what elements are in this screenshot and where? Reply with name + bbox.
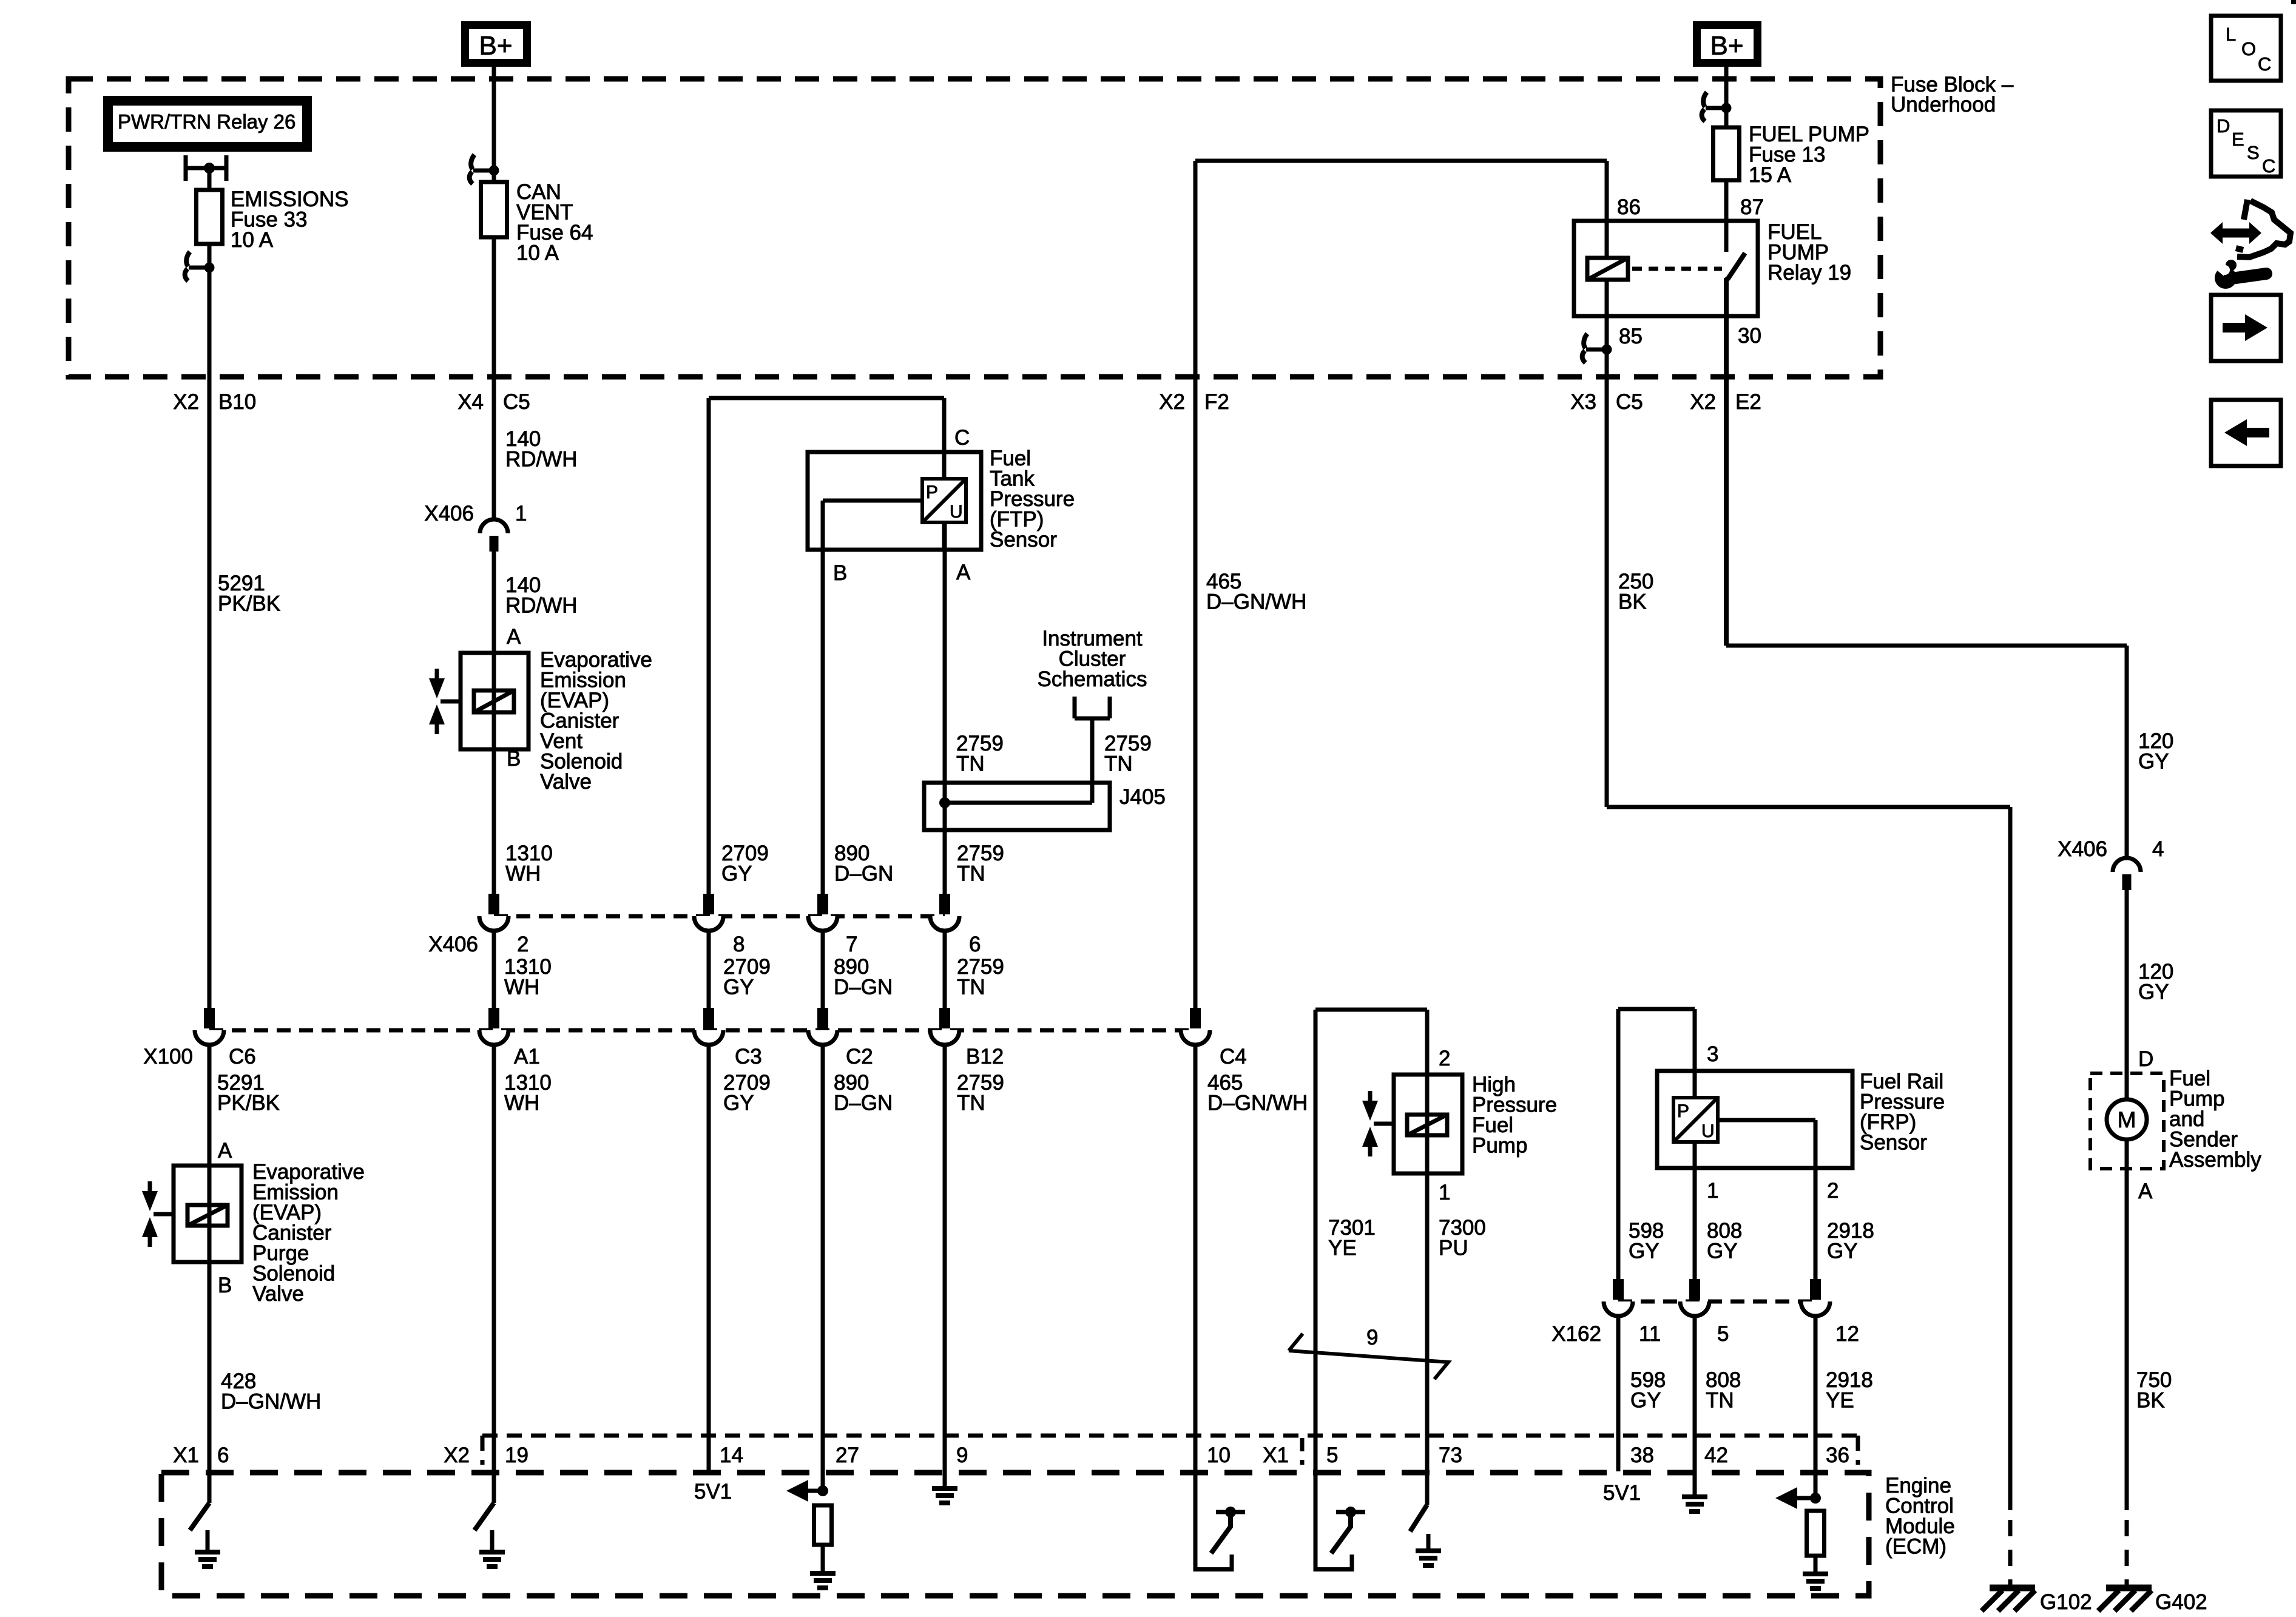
svg-text:X2: X2: [1159, 390, 1185, 414]
svg-text:B12: B12: [966, 1045, 1004, 1068]
svg-text:B+: B+: [479, 31, 512, 61]
svg-text:8: 8: [733, 933, 745, 956]
svg-text:F2: F2: [1204, 390, 1229, 414]
svg-text:6: 6: [969, 933, 981, 956]
svg-text:85: 85: [1619, 325, 1643, 348]
svg-text:X406: X406: [2058, 837, 2107, 861]
svg-text:TN: TN: [1104, 752, 1133, 776]
svg-text:GY: GY: [721, 862, 752, 886]
svg-text:Valve: Valve: [540, 770, 592, 794]
svg-text:GY: GY: [1630, 1389, 1661, 1413]
svg-text:S: S: [2247, 142, 2260, 163]
svg-text:X2: X2: [173, 390, 199, 414]
svg-text:1: 1: [1439, 1181, 1450, 1204]
svg-text:D–GN/WH: D–GN/WH: [1207, 1092, 1308, 1115]
svg-text:A: A: [956, 561, 971, 584]
svg-text:X4: X4: [458, 390, 484, 414]
svg-text:WH: WH: [505, 862, 541, 886]
svg-text:GY: GY: [723, 1092, 754, 1115]
svg-text:X100: X100: [143, 1045, 193, 1068]
svg-text:B: B: [218, 1274, 232, 1297]
svg-text:E: E: [2232, 129, 2244, 150]
svg-text:C5: C5: [503, 390, 530, 414]
svg-text:TN: TN: [1706, 1389, 1734, 1413]
svg-text:D–GN: D–GN: [834, 976, 893, 999]
svg-text:6: 6: [217, 1443, 229, 1467]
svg-text:42: 42: [1704, 1443, 1728, 1467]
svg-text:X406: X406: [428, 933, 478, 956]
svg-text:GY: GY: [2138, 750, 2169, 774]
svg-text:10 A: 10 A: [231, 228, 274, 252]
svg-text:2: 2: [1439, 1047, 1450, 1070]
svg-text:36: 36: [1826, 1443, 1849, 1467]
svg-text:B: B: [833, 561, 847, 585]
svg-text:9: 9: [1366, 1326, 1378, 1349]
svg-text:TN: TN: [956, 752, 985, 776]
svg-text:B: B: [507, 747, 521, 771]
svg-text:P: P: [1677, 1101, 1689, 1121]
svg-text:GY: GY: [1629, 1240, 1660, 1263]
svg-text:X1: X1: [173, 1443, 199, 1467]
svg-text:Sensor: Sensor: [1860, 1131, 1927, 1155]
svg-text:C5: C5: [1616, 390, 1643, 414]
svg-text:X406: X406: [424, 502, 474, 525]
svg-text:GY: GY: [723, 976, 754, 999]
svg-text:BK: BK: [2136, 1389, 2165, 1413]
svg-text:X2: X2: [444, 1443, 470, 1467]
svg-text:3: 3: [1707, 1042, 1718, 1066]
svg-text:Underhood: Underhood: [1891, 93, 1996, 116]
svg-text:G402: G402: [2155, 1590, 2207, 1614]
svg-text:2: 2: [517, 933, 528, 956]
svg-text:RD/WH: RD/WH: [505, 448, 578, 471]
svg-text:2: 2: [1827, 1179, 1838, 1203]
svg-text:A: A: [218, 1139, 232, 1163]
svg-text:(ECM): (ECM): [1885, 1535, 1947, 1559]
svg-text:PK/BK: PK/BK: [217, 1092, 280, 1115]
svg-text:73: 73: [1439, 1443, 1462, 1467]
svg-text:PK/BK: PK/BK: [218, 592, 280, 616]
svg-text:5: 5: [1717, 1322, 1729, 1346]
svg-text:C2: C2: [846, 1045, 873, 1068]
svg-text:O: O: [2241, 38, 2256, 59]
svg-text:GY: GY: [2138, 981, 2169, 1004]
svg-text:Pump: Pump: [1472, 1134, 1527, 1158]
svg-text:X2: X2: [1690, 390, 1716, 414]
svg-text:TN: TN: [957, 1092, 985, 1115]
svg-text:5: 5: [1326, 1443, 1338, 1467]
svg-text:86: 86: [1617, 195, 1641, 219]
svg-text:C: C: [2262, 155, 2275, 177]
svg-text:RD/WH: RD/WH: [505, 594, 578, 618]
svg-text:M: M: [2118, 1107, 2136, 1132]
svg-text:C4: C4: [1220, 1045, 1247, 1068]
svg-text:1: 1: [1707, 1179, 1718, 1203]
svg-text:B+: B+: [1710, 31, 1743, 61]
svg-text:P: P: [926, 482, 938, 502]
svg-text:YE: YE: [1328, 1237, 1357, 1260]
svg-text:YE: YE: [1826, 1389, 1854, 1413]
svg-text:38: 38: [1630, 1443, 1654, 1467]
svg-text:BK: BK: [1618, 590, 1647, 614]
svg-text:11: 11: [1639, 1322, 1661, 1346]
svg-text:TN: TN: [957, 862, 985, 886]
svg-text:C: C: [2258, 53, 2271, 75]
svg-text:L: L: [2226, 24, 2236, 45]
svg-text:Relay 19: Relay 19: [1768, 261, 1851, 285]
svg-text:U: U: [950, 502, 963, 522]
svg-text:Sensor: Sensor: [990, 528, 1057, 552]
svg-text:D: D: [2217, 115, 2230, 137]
svg-text:4: 4: [2152, 837, 2164, 861]
svg-text:Schematics: Schematics: [1038, 667, 1147, 691]
svg-text:D: D: [2138, 1047, 2153, 1071]
svg-text:C6: C6: [229, 1045, 256, 1068]
svg-text:WH: WH: [504, 976, 539, 999]
svg-text:15 A: 15 A: [1749, 163, 1792, 187]
svg-text:19: 19: [505, 1443, 528, 1467]
svg-text:9: 9: [956, 1443, 968, 1467]
svg-text:B10: B10: [218, 390, 256, 414]
svg-text:TN: TN: [957, 976, 985, 999]
svg-text:U: U: [1701, 1121, 1715, 1141]
svg-text:C: C: [954, 426, 970, 450]
svg-text:87: 87: [1740, 195, 1764, 219]
svg-text:X3: X3: [1570, 390, 1596, 414]
svg-text:G102: G102: [2040, 1590, 2092, 1614]
svg-text:X1: X1: [1263, 1443, 1289, 1467]
svg-text:7: 7: [846, 933, 857, 956]
svg-text:D–GN/WH: D–GN/WH: [1206, 590, 1306, 614]
svg-text:WH: WH: [504, 1092, 539, 1115]
svg-text:5V1: 5V1: [694, 1480, 732, 1504]
svg-text:Assembly: Assembly: [2169, 1148, 2261, 1172]
svg-text:D–GN/WH: D–GN/WH: [221, 1390, 321, 1414]
svg-text:X162: X162: [1551, 1322, 1601, 1346]
svg-text:Valve: Valve: [252, 1282, 304, 1306]
svg-text:J405: J405: [1119, 785, 1166, 809]
svg-text:5V1: 5V1: [1603, 1481, 1641, 1505]
svg-text:27: 27: [836, 1443, 859, 1467]
svg-text:D–GN: D–GN: [834, 1092, 893, 1115]
svg-text:A1: A1: [514, 1045, 540, 1068]
svg-text:1: 1: [515, 502, 527, 525]
svg-text:C3: C3: [735, 1045, 762, 1068]
svg-text:PU: PU: [1439, 1237, 1468, 1260]
svg-text:10 A: 10 A: [516, 241, 559, 265]
svg-text:E2: E2: [1735, 390, 1761, 414]
svg-text:12: 12: [1835, 1322, 1859, 1346]
svg-text:A: A: [507, 625, 521, 649]
svg-text:14: 14: [720, 1443, 743, 1467]
svg-text:GY: GY: [1827, 1240, 1858, 1263]
svg-text:10: 10: [1207, 1443, 1231, 1467]
svg-text:30: 30: [1738, 324, 1761, 348]
svg-text:PWR/TRN Relay 26: PWR/TRN Relay 26: [118, 110, 295, 133]
svg-text:GY: GY: [1707, 1240, 1738, 1263]
svg-text:A: A: [2138, 1180, 2153, 1203]
svg-text:D–GN: D–GN: [834, 862, 893, 886]
